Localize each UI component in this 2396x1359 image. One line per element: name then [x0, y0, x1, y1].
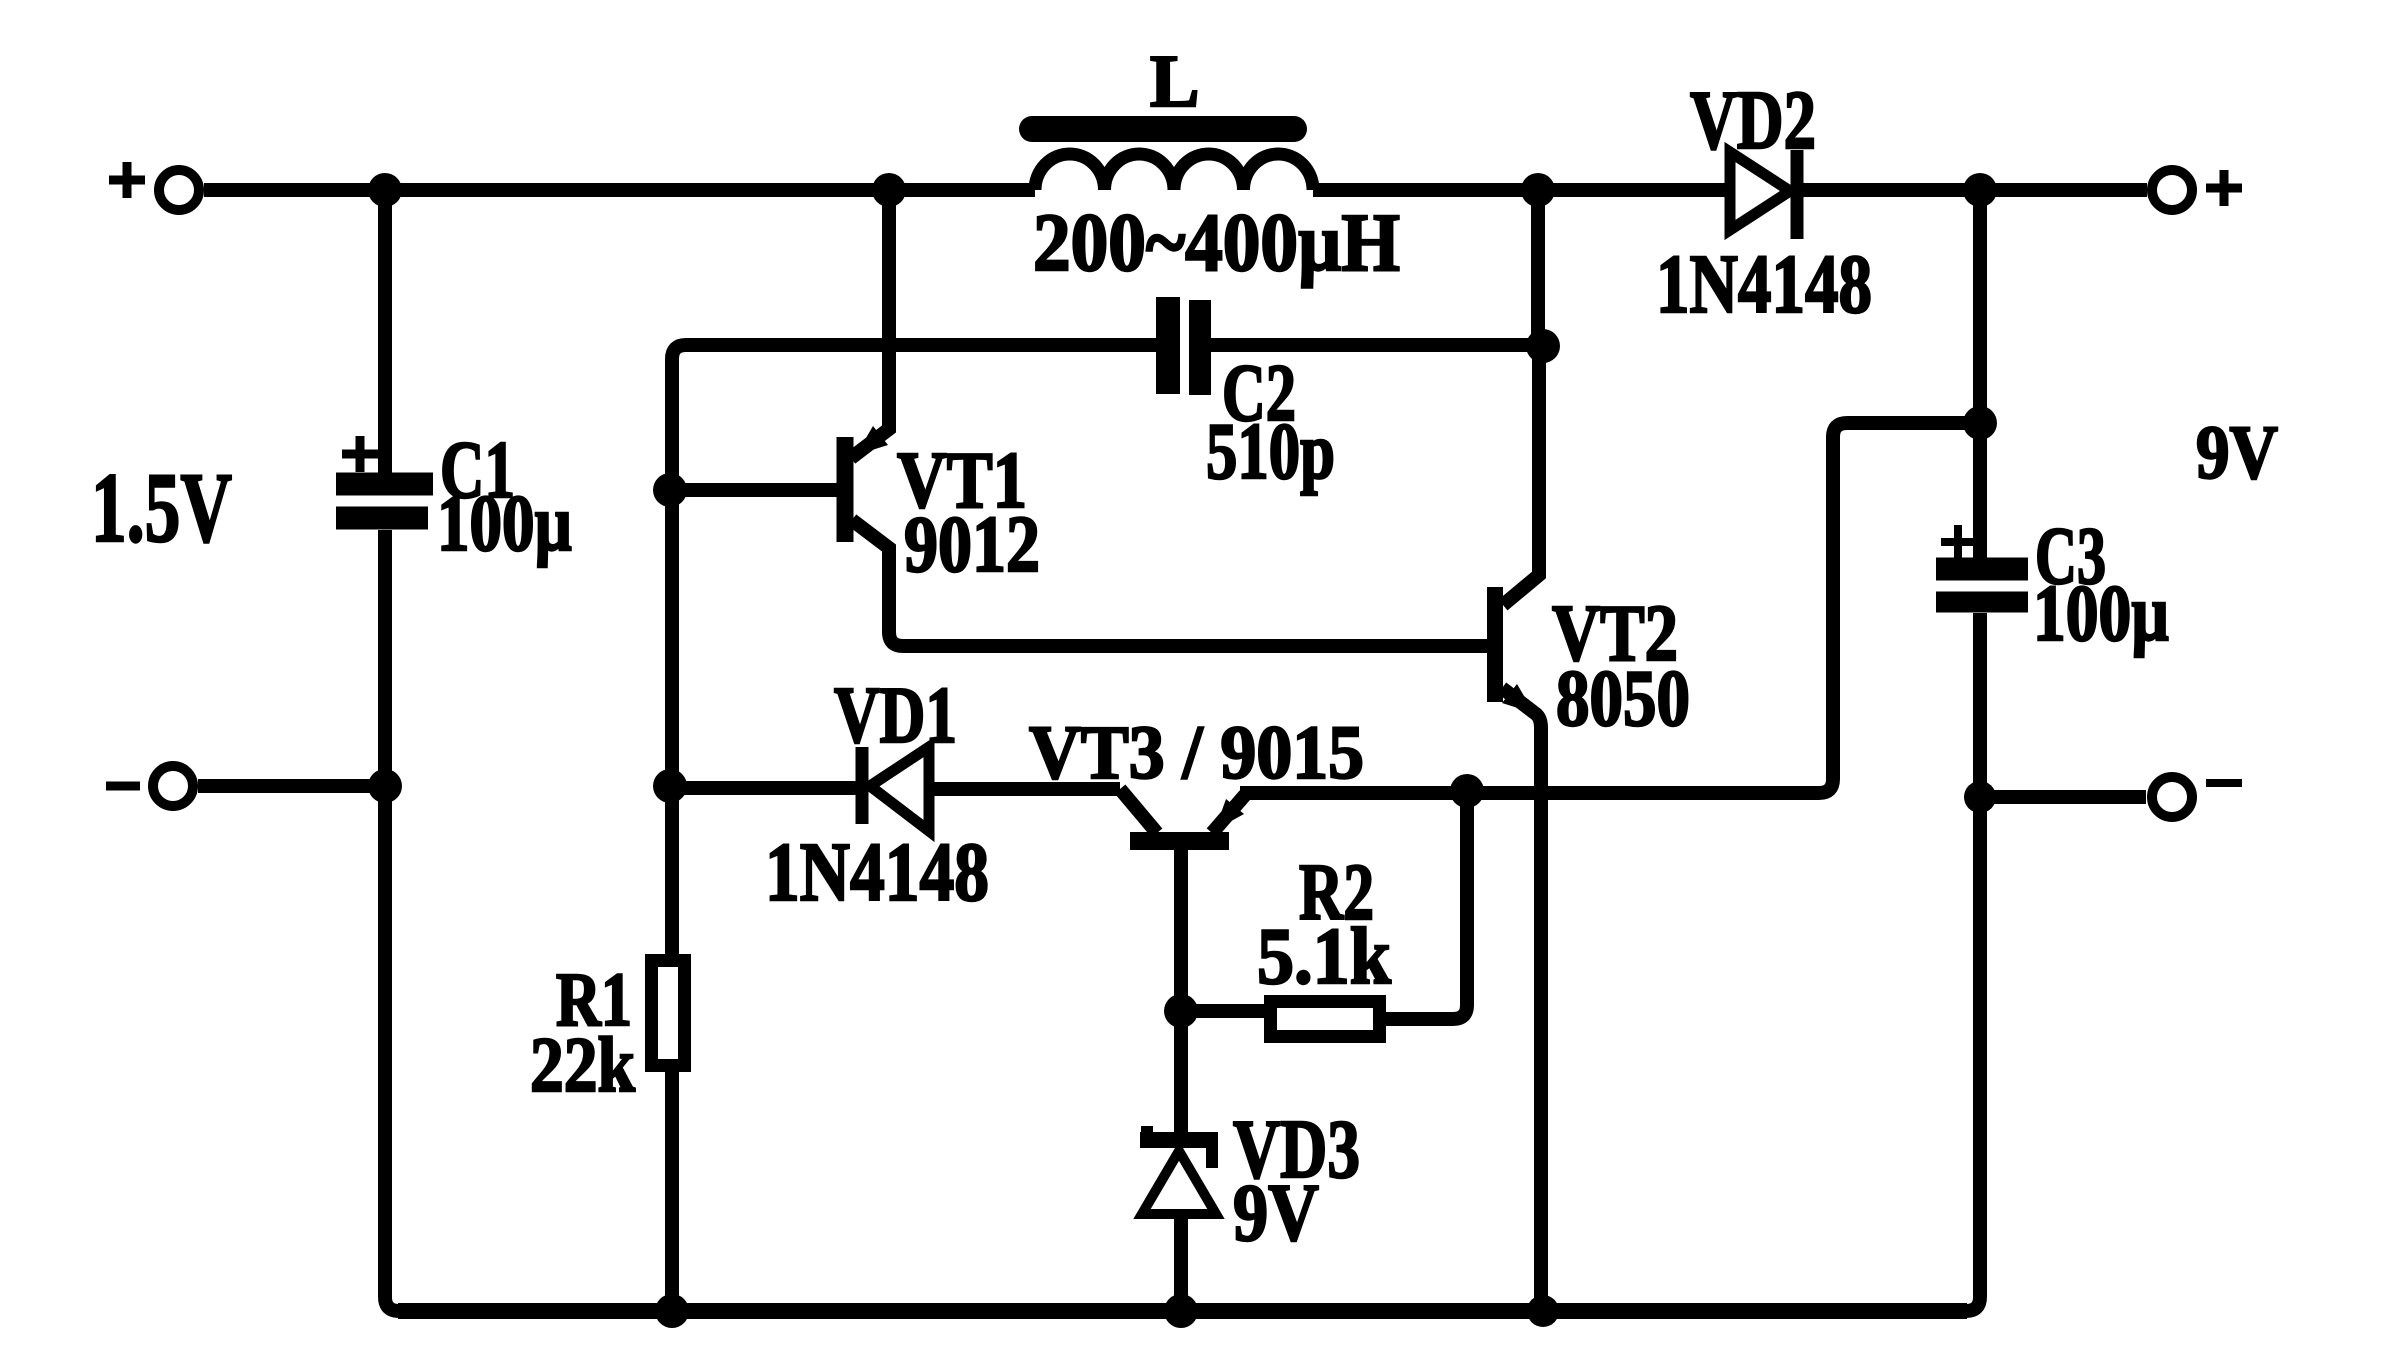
svg-text:8050: 8050 [1556, 655, 1690, 743]
svg-text:22k: 22k [530, 1021, 636, 1108]
svg-text:1.5V: 1.5V [91, 452, 232, 563]
svg-text:1N4148: 1N4148 [1656, 238, 1872, 331]
svg-text:1N4148: 1N4148 [765, 826, 989, 919]
svg-text:9V: 9V [2196, 411, 2278, 495]
svg-text:VT3 / 9015: VT3 / 9015 [1029, 711, 1364, 795]
svg-text:9V: 9V [1233, 1167, 1319, 1258]
svg-text:L: L [1150, 41, 1199, 123]
svg-text:9012: 9012 [904, 501, 1040, 589]
svg-text:200~400µH: 200~400µH [1033, 196, 1400, 288]
svg-text:510p: 510p [1206, 408, 1335, 496]
svg-text:5.1k: 5.1k [1257, 913, 1391, 1001]
svg-text:VD1: VD1 [834, 672, 957, 760]
svg-text:100µ: 100µ [437, 480, 572, 568]
svg-text:100µ: 100µ [2033, 570, 2169, 658]
svg-text:VD2: VD2 [1690, 74, 1816, 167]
